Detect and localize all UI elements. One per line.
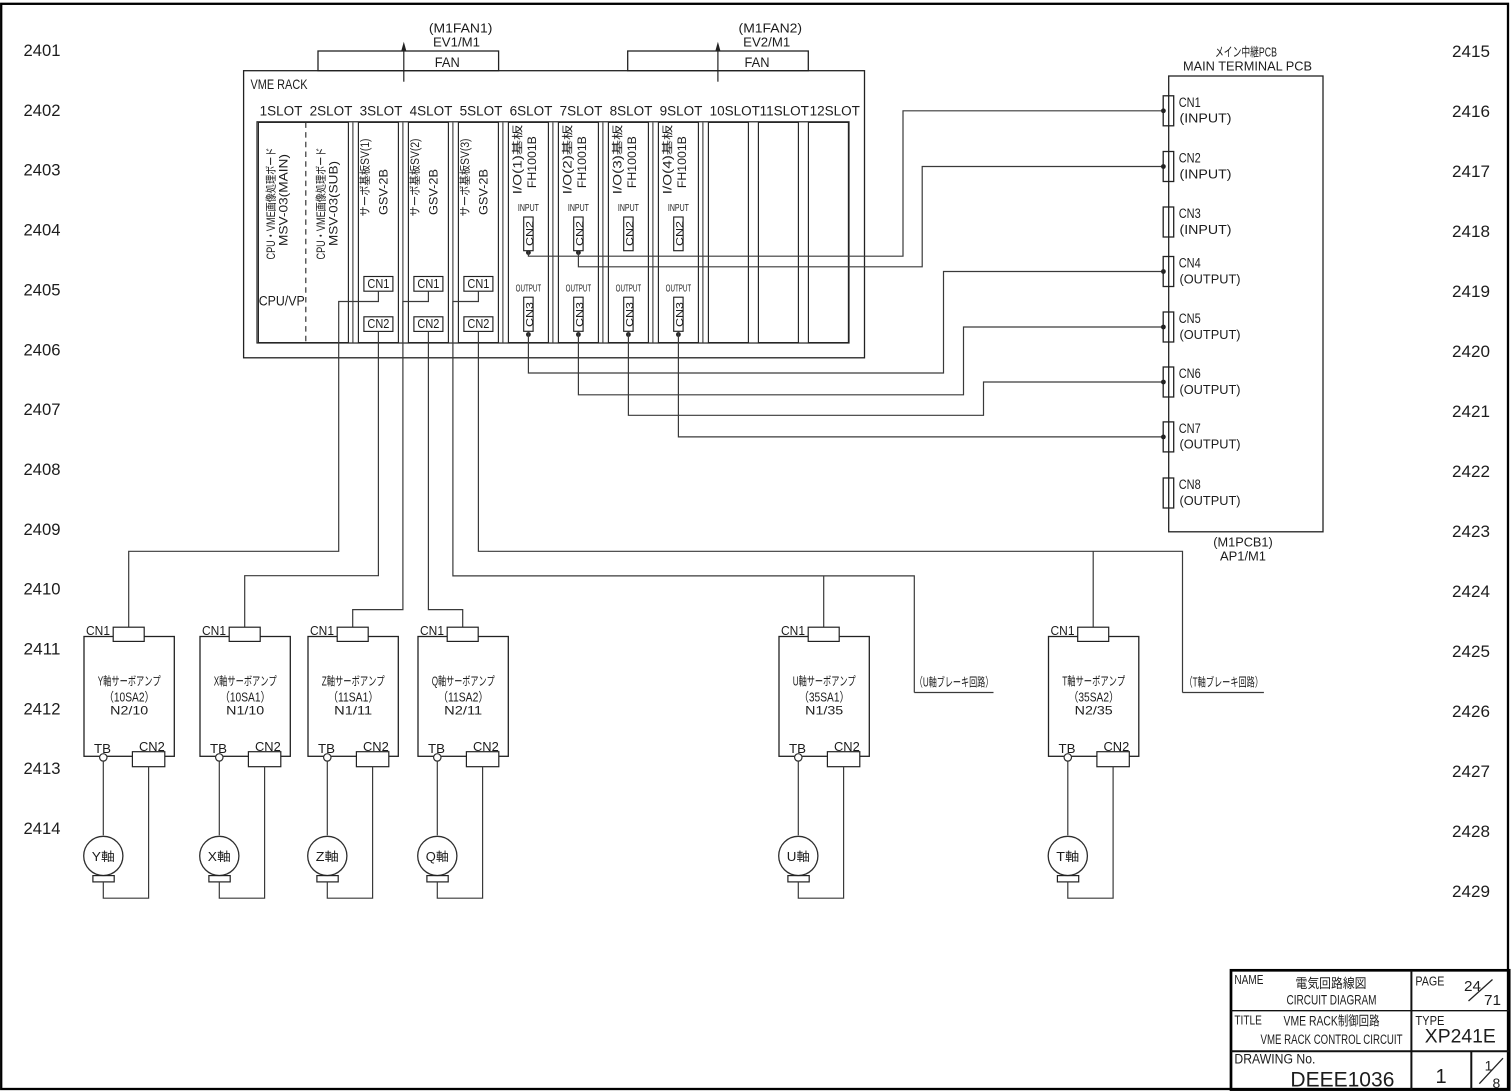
svg-text:(INPUT): (INPUT)	[1180, 163, 1232, 182]
board SV(3) rail line	[502, 122, 504, 342]
svg-text:2422: 2422	[1452, 458, 1490, 482]
connector CN1 of servo board SV(3)	[464, 277, 493, 292]
svg-text:CN2: CN2	[622, 221, 637, 246]
svg-text:2411: 2411	[24, 636, 61, 660]
junction dot 6SLOT CN3	[526, 332, 531, 337]
svg-text:2405: 2405	[24, 276, 61, 300]
wire I/O(1) INPUT CN2 to PCB CN1	[528, 111, 1163, 256]
connector CN1 (INPUT) of terminal PCB	[1163, 96, 1174, 126]
connector CN2 of servo board SV(2)	[414, 317, 443, 332]
servo amplifier U-axis box	[779, 637, 869, 757]
svg-text:INPUT: INPUT	[618, 200, 639, 215]
terminal TB of Y amp	[100, 754, 107, 761]
connector CN1 of T amp	[1078, 627, 1109, 641]
junction dot at CN7	[1161, 435, 1166, 440]
junction dot at CN2	[1161, 164, 1166, 169]
svg-text:GSV-2B: GSV-2B	[475, 169, 492, 215]
svg-text:8SLOT: 8SLOT	[610, 100, 653, 120]
connector CN2 INPUT of I/O(2)	[574, 217, 583, 251]
svg-text:CN1: CN1	[420, 620, 444, 639]
svg-text:1SLOT: 1SLOT	[260, 100, 303, 120]
connector CN3 (INPUT) of terminal PCB	[1163, 207, 1174, 237]
wire TB to Z motor	[326, 761, 328, 835]
wire TB to Q motor	[436, 761, 438, 835]
svg-text:NAME: NAME	[1234, 969, 1263, 988]
svg-text:サーボ基板SV(2): サーボ基板SV(2)	[407, 138, 423, 216]
board I/O(2) rail line	[602, 122, 604, 342]
svg-text:2417: 2417	[1452, 158, 1490, 182]
svg-text:12SLOT: 12SLOT	[810, 100, 860, 120]
svg-text:2401: 2401	[24, 37, 61, 61]
connector CN2 (INPUT) of terminal PCB	[1163, 152, 1174, 182]
svg-text:5SLOT: 5SLOT	[460, 100, 503, 120]
svg-text:AP1/M1: AP1/M1	[1220, 546, 1266, 565]
board I/O(1) FH1001B (slot 6)	[508, 122, 548, 342]
svg-text:11SLOT: 11SLOT	[760, 100, 809, 120]
connector CN1 of Q amp	[447, 627, 478, 641]
svg-text:VME RACK: VME RACK	[251, 74, 309, 94]
fan air-flow arrow (M1FAN2)	[717, 50, 719, 82]
connector CN2 of T amp	[1097, 752, 1129, 767]
svg-text:2429: 2429	[1452, 878, 1490, 902]
motor Q base	[427, 876, 448, 882]
connector CN1 of Z amp	[337, 627, 368, 641]
connector CN2 INPUT of I/O(1)	[524, 217, 533, 251]
svg-text:2415: 2415	[1452, 38, 1490, 62]
svg-text:DEEE1036: DEEE1036	[1290, 1063, 1394, 1092]
svg-text:N2/10: N2/10	[110, 702, 148, 719]
board I/O(4) FH1001B (slot 9)	[658, 122, 698, 342]
svg-text:2419: 2419	[1452, 278, 1490, 302]
svg-text:FH1001B: FH1001B	[523, 136, 540, 188]
fan box M1FAN1	[318, 51, 499, 71]
servo amplifier T-axis box	[1049, 637, 1139, 757]
connector CN2 of Q amp	[466, 752, 498, 767]
board U1 CPU-VME MSV-03 (slots 1-2)	[258, 122, 348, 342]
wire CN2 to Y motor base	[103, 767, 148, 899]
wire Y-axis: 3SLOT CN1 to Y amp CN1	[129, 291, 379, 627]
svg-text:CN1: CN1	[367, 273, 389, 292]
connector CN8 (OUTPUT) of terminal PCB	[1163, 478, 1174, 508]
svg-text:U軸: U軸	[787, 846, 810, 865]
terminal TB of U amp	[795, 754, 802, 761]
motor X base	[209, 876, 230, 882]
svg-text:CN2: CN2	[467, 313, 489, 332]
board SV(2) GSV-2B (slot 4)	[408, 122, 448, 342]
svg-text:2426: 2426	[1452, 698, 1490, 722]
junction dot 7SLOT CN3	[576, 332, 581, 337]
svg-text:2406: 2406	[24, 336, 61, 360]
junction dot 6SLOT CN2	[526, 250, 531, 255]
junction dot 7SLOT CN2	[576, 250, 581, 255]
card cage inner box	[257, 122, 849, 343]
wire Q-axis: 4SLOT CN2 to Q amp CN1	[428, 331, 462, 627]
board SV(1) rail line	[402, 122, 404, 342]
wire CN2 to U motor base	[798, 767, 843, 899]
svg-text:2425: 2425	[1452, 638, 1490, 662]
svg-text:サーボ基板SV(3): サーボ基板SV(3)	[457, 138, 473, 216]
wire CN2 to T motor base	[1068, 767, 1113, 899]
svg-text:2423: 2423	[1452, 518, 1490, 542]
title block outer frame	[1231, 970, 1509, 1089]
title block sub-column divider	[1470, 1051, 1472, 1089]
svg-text:3SLOT: 3SLOT	[360, 100, 403, 120]
motor Q	[418, 836, 457, 875]
svg-text:CN1: CN1	[86, 620, 110, 639]
svg-text:CN1: CN1	[202, 620, 226, 639]
motor X	[200, 836, 239, 875]
svg-text:OUTPUT: OUTPUT	[666, 280, 692, 295]
terminal TB of T amp	[1064, 754, 1071, 761]
svg-text:VME RACK CONTROL CIRCUIT: VME RACK CONTROL CIRCUIT	[1261, 1028, 1403, 1048]
svg-text:2408: 2408	[24, 456, 61, 480]
svg-text:EV1/M1: EV1/M1	[433, 32, 480, 51]
svg-text:2412: 2412	[24, 695, 61, 719]
svg-text:2402: 2402	[24, 97, 61, 121]
dashed divider between MAIN and SUB	[305, 122, 307, 342]
motor U	[779, 836, 818, 875]
svg-text:7SLOT: 7SLOT	[560, 100, 603, 120]
VME RACK enclosure box	[244, 71, 865, 358]
svg-text:N2/35: N2/35	[1075, 702, 1113, 719]
wire I/O(3) OUTPUT CN3 to PCB CN6	[628, 331, 1163, 415]
terminal TB of Q amp	[434, 754, 441, 761]
servo amplifier Y-axis box	[84, 637, 174, 757]
svg-text:4SLOT: 4SLOT	[410, 100, 453, 120]
svg-text:(OUTPUT): (OUTPUT)	[1180, 379, 1241, 398]
svg-text:2428: 2428	[1452, 818, 1490, 842]
svg-text:OUTPUT: OUTPUT	[566, 280, 592, 295]
wire TB to T motor	[1067, 761, 1069, 835]
svg-text:2416: 2416	[1452, 98, 1490, 122]
svg-text:T軸: T軸	[1056, 846, 1079, 865]
board I/O(3) rail line	[652, 122, 654, 342]
title block row divider 2	[1231, 1050, 1509, 1052]
connector CN7 (OUTPUT) of terminal PCB	[1163, 422, 1174, 452]
junction dot 9SLOT CN3	[676, 332, 681, 337]
svg-text:2SLOT: 2SLOT	[310, 100, 353, 120]
motor Y	[84, 836, 123, 875]
connector CN1 of Y amp	[113, 627, 144, 641]
svg-text:XP241E: XP241E	[1425, 1022, 1496, 1049]
svg-text:MAIN TERMINAL PCB: MAIN TERMINAL PCB	[1183, 56, 1312, 75]
svg-text:2418: 2418	[1452, 218, 1490, 242]
connector CN3 OUTPUT of I/O(3)	[624, 297, 633, 331]
svg-text:(OUTPUT): (OUTPUT)	[1180, 490, 1241, 509]
svg-text:GSV-2B: GSV-2B	[375, 169, 392, 215]
svg-text:EV2/M1: EV2/M1	[743, 32, 790, 51]
board I/O(3) FH1001B (slot 8)	[608, 122, 648, 342]
fan box M1FAN2	[628, 51, 809, 71]
svg-text:2403: 2403	[24, 157, 61, 181]
svg-text:MSV-03(MAIN): MSV-03(MAIN)	[274, 154, 291, 246]
connector CN2 of Y amp	[132, 752, 164, 767]
wire Z-axis: 4SLOT CN1 to Z amp CN1	[353, 291, 429, 627]
connector CN2 of U amp	[827, 752, 859, 767]
svg-text:N1/10: N1/10	[226, 702, 264, 719]
junction dot at CN5	[1161, 325, 1166, 330]
svg-text:2420: 2420	[1452, 338, 1490, 362]
svg-text:FH1001B: FH1001B	[623, 136, 640, 188]
svg-text:CN3: CN3	[672, 302, 687, 327]
svg-text:(OUTPUT): (OUTPUT)	[1180, 324, 1241, 343]
svg-text:CN1: CN1	[781, 620, 805, 639]
connector CN5 (OUTPUT) of terminal PCB	[1163, 312, 1174, 342]
wire X-axis: 3SLOT CN2 to X amp CN1	[245, 331, 379, 627]
svg-text:Z軸: Z軸	[316, 846, 339, 865]
wire U-axis: 5SLOT CN1 to U amp CN1 and U brake circuit	[453, 291, 914, 692]
svg-text:INPUT: INPUT	[668, 200, 689, 215]
svg-text:1: 1	[1485, 1056, 1493, 1076]
connector CN1 of U amp	[808, 627, 839, 641]
servo amplifier Q-axis box	[418, 637, 508, 757]
connector CN3 OUTPUT of I/O(4)	[674, 297, 683, 331]
junction dot at CN4	[1161, 269, 1166, 274]
svg-text:2410: 2410	[24, 576, 61, 600]
svg-text:2404: 2404	[24, 217, 61, 241]
svg-text:（T軸ブレーキ回路）: （T軸ブレーキ回路）	[1185, 671, 1264, 690]
svg-text:(OUTPUT): (OUTPUT)	[1180, 268, 1241, 287]
svg-text:INPUT: INPUT	[518, 200, 539, 215]
svg-text:CN3: CN3	[522, 302, 537, 327]
junction dot 8SLOT CN3	[626, 332, 631, 337]
wire TB to U motor	[797, 761, 799, 835]
svg-text:CN2: CN2	[522, 221, 537, 246]
connector CN2 of Z amp	[356, 752, 388, 767]
svg-text:N1/35: N1/35	[805, 702, 843, 719]
empty slot 12 guide rails	[808, 122, 848, 342]
connector CN3 OUTPUT of I/O(2)	[574, 297, 583, 331]
svg-text:CN2: CN2	[367, 313, 389, 332]
svg-text:71: 71	[1484, 989, 1501, 1010]
terminal TB of X amp	[216, 754, 223, 761]
svg-text:PAGE: PAGE	[1415, 971, 1444, 990]
svg-text:FH1001B: FH1001B	[673, 136, 690, 188]
svg-text:CN1: CN1	[467, 273, 489, 292]
title block column divider	[1410, 970, 1412, 1089]
svg-text:CN1: CN1	[417, 273, 439, 292]
svg-text:FAN: FAN	[435, 51, 460, 71]
motor Z base	[317, 876, 338, 882]
svg-text:N1/11: N1/11	[334, 702, 372, 719]
connector CN4 (OUTPUT) of terminal PCB	[1163, 257, 1174, 287]
svg-text:N2/11: N2/11	[444, 702, 482, 719]
wire I/O(2) OUTPUT CN3 to PCB CN5	[578, 327, 1163, 395]
svg-text:INPUT: INPUT	[568, 200, 589, 215]
svg-text:CN1: CN1	[310, 620, 334, 639]
servo amplifier X-axis box	[200, 637, 290, 757]
wire CN2 to Q motor base	[437, 767, 482, 899]
svg-text:CIRCUIT DIAGRAM: CIRCUIT DIAGRAM	[1287, 990, 1377, 1010]
svg-text:2427: 2427	[1452, 758, 1490, 782]
motor T	[1048, 836, 1087, 875]
svg-text:9SLOT: 9SLOT	[660, 100, 703, 120]
svg-text:CN2: CN2	[672, 221, 687, 246]
svg-text:2409: 2409	[24, 516, 61, 540]
wire TB to X motor	[218, 761, 220, 835]
connector CN1 of servo board SV(1)	[364, 277, 393, 292]
svg-text:GSV-2B: GSV-2B	[425, 169, 442, 215]
svg-text:2407: 2407	[24, 396, 61, 420]
svg-text:OUTPUT: OUTPUT	[616, 280, 642, 295]
svg-text:OUTPUT: OUTPUT	[516, 280, 542, 295]
main terminal PCB box AP1/M1	[1169, 76, 1323, 532]
fan air-flow arrow (M1FAN1)	[403, 50, 405, 82]
wire T-axis: 5SLOT CN2 to T amp CN1 and T brake circuit	[478, 331, 1182, 692]
svg-text:X軸: X軸	[208, 846, 231, 865]
svg-text:CN2: CN2	[572, 221, 587, 246]
board SV(3) GSV-2B (slot 5)	[458, 122, 498, 342]
svg-text:VME RACK制御回路: VME RACK制御回路	[1284, 1010, 1380, 1030]
wire I/O(2) INPUT CN2 to PCB CN2	[578, 167, 1163, 267]
svg-text:MSV-03(SUB): MSV-03(SUB)	[325, 161, 342, 246]
board U1 rail line	[352, 122, 354, 342]
svg-text:CN2: CN2	[417, 313, 439, 332]
svg-text:FAN: FAN	[745, 51, 770, 71]
svg-text:TITLE: TITLE	[1234, 1010, 1262, 1029]
svg-text:8: 8	[1493, 1073, 1501, 1092]
connector CN1 of X amp	[229, 627, 260, 641]
connector CN2 of X amp	[248, 752, 280, 767]
motor Z	[308, 836, 347, 875]
svg-text:10SLOT: 10SLOT	[710, 100, 760, 120]
junction dot at CN6	[1161, 380, 1166, 385]
connector CN6 (OUTPUT) of terminal PCB	[1163, 367, 1174, 397]
svg-text:(INPUT): (INPUT)	[1180, 108, 1232, 127]
board I/O(2) FH1001B (slot 7)	[558, 122, 598, 342]
junction dot at CN1	[1161, 108, 1166, 113]
wire I/O(1) OUTPUT CN3 to PCB CN4	[528, 272, 1163, 374]
board SV(2) rail line	[452, 122, 454, 342]
connector CN2 INPUT of I/O(4)	[674, 217, 683, 251]
svg-text:（U軸ブレーキ回路）: （U軸ブレーキ回路）	[915, 671, 994, 690]
motor Y base	[93, 876, 114, 882]
svg-text:CN1: CN1	[1051, 620, 1075, 639]
servo amplifier Z-axis box	[308, 637, 398, 757]
terminal TB of Z amp	[324, 754, 331, 761]
svg-text:1: 1	[1435, 1060, 1446, 1089]
motor T base	[1057, 876, 1078, 882]
empty slot 11 guide rails	[758, 122, 798, 342]
empty slot 10 guide rails	[708, 122, 748, 342]
svg-text:2421: 2421	[1452, 398, 1490, 422]
svg-text:6SLOT: 6SLOT	[510, 100, 553, 120]
motor U base	[788, 876, 809, 882]
svg-text:(OUTPUT): (OUTPUT)	[1180, 434, 1241, 453]
svg-text:CN3: CN3	[572, 302, 587, 327]
board SV(1) GSV-2B (slot 3)	[358, 122, 398, 342]
svg-text:CPU/VP: CPU/VP	[259, 289, 305, 309]
connector CN2 of servo board SV(3)	[464, 317, 493, 332]
title block row divider 1	[1231, 1010, 1509, 1012]
svg-text:サーボ基板SV(1): サーボ基板SV(1)	[357, 138, 373, 216]
svg-text:(INPUT): (INPUT)	[1180, 219, 1232, 238]
svg-text:FH1001B: FH1001B	[573, 136, 590, 188]
svg-text:Q軸: Q軸	[426, 846, 449, 865]
wire CN2 to Z motor base	[327, 767, 372, 899]
connector CN1 of servo board SV(2)	[414, 277, 443, 292]
svg-text:2424: 2424	[1452, 578, 1490, 602]
svg-text:Y軸: Y軸	[92, 846, 115, 865]
wire I/O(4) OUTPUT CN3 to PCB CN7	[678, 331, 1163, 437]
board I/O(4) rail line	[702, 122, 704, 342]
wire TB to Y motor	[102, 761, 104, 835]
svg-text:CN3: CN3	[622, 302, 637, 327]
svg-text:2413: 2413	[24, 755, 61, 779]
board I/O(1) rail line	[552, 122, 554, 342]
connector CN2 INPUT of I/O(3)	[624, 217, 633, 251]
connector CN2 of servo board SV(1)	[364, 317, 393, 332]
wire CN2 to X motor base	[219, 767, 264, 899]
svg-text:2414: 2414	[24, 815, 61, 839]
connector CN3 OUTPUT of I/O(1)	[524, 297, 533, 331]
